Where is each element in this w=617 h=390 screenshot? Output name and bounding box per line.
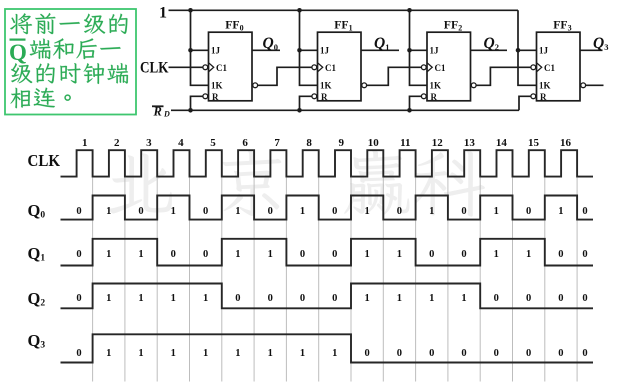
svg-text:0: 0 xyxy=(526,206,531,217)
junction dot RD rail FF2 xyxy=(407,108,412,113)
svg-text:6: 6 xyxy=(242,137,248,149)
svg-text:1J: 1J xyxy=(539,46,549,56)
wire 1J input FF3 xyxy=(518,49,537,51)
svg-text:0: 0 xyxy=(461,249,466,260)
clock edge wedge FF1 xyxy=(318,63,323,72)
svg-text:1: 1 xyxy=(235,249,240,260)
svg-text:1: 1 xyxy=(332,348,337,359)
svg-text:C1: C1 xyxy=(435,63,446,73)
svg-text:0: 0 xyxy=(582,348,587,359)
svg-text:0: 0 xyxy=(171,249,176,260)
wire Qbar2 output xyxy=(476,67,531,85)
reset inversion bubble FF3 xyxy=(531,94,536,99)
svg-text:2: 2 xyxy=(114,137,120,149)
Q0 waveform xyxy=(61,196,594,220)
Q3 waveform xyxy=(61,334,594,362)
wire Qbar1 output xyxy=(367,67,422,85)
wire Qbar3 output xyxy=(586,84,604,86)
svg-text:1: 1 xyxy=(171,293,176,304)
svg-text:0: 0 xyxy=(429,348,434,359)
svg-text:13: 13 xyxy=(464,137,476,149)
wire R input FF1 xyxy=(300,96,312,110)
svg-text:1: 1 xyxy=(106,348,111,359)
junction dot RD rail FF0 xyxy=(188,108,193,113)
svg-text:1K: 1K xyxy=(430,81,442,91)
junction dot RD rail FF1 xyxy=(297,108,302,113)
watermark character 北 xyxy=(109,153,172,213)
wire 1-rail drop to FF1 1K xyxy=(300,10,318,85)
wire 1-rail drop to FF2 1K xyxy=(410,10,428,85)
clock inversion bubble FF3 xyxy=(531,65,536,70)
svg-text:1: 1 xyxy=(268,249,273,260)
svg-text:7: 7 xyxy=(274,137,280,149)
clock inversion bubble FF0 xyxy=(203,65,208,70)
svg-text:0: 0 xyxy=(494,293,499,304)
wire R input FF3 xyxy=(519,96,531,110)
svg-text:0: 0 xyxy=(582,206,587,217)
svg-text:1: 1 xyxy=(138,293,143,304)
svg-text:1: 1 xyxy=(235,206,240,217)
svg-text:0: 0 xyxy=(526,293,531,304)
annotation text line 1 将前一级的 xyxy=(10,13,127,34)
annotation text line 4 相连。 xyxy=(11,88,71,109)
svg-text:0: 0 xyxy=(235,293,240,304)
svg-text:10: 10 xyxy=(368,137,380,149)
wire Qbar0 output xyxy=(258,67,312,85)
wire 1J input FF1 xyxy=(300,49,318,51)
svg-text:CLK: CLK xyxy=(140,60,169,77)
svg-text:1: 1 xyxy=(364,293,369,304)
svg-text:1: 1 xyxy=(235,348,240,359)
svg-text:1J: 1J xyxy=(430,46,440,56)
svg-text:3: 3 xyxy=(146,137,152,149)
svg-text:C1: C1 xyxy=(325,63,336,73)
svg-text:0: 0 xyxy=(76,293,81,304)
Qbar inversion bubble FF3 xyxy=(581,83,586,88)
svg-text:9: 9 xyxy=(338,137,344,149)
svg-text:1K: 1K xyxy=(211,81,223,91)
svg-text:0: 0 xyxy=(364,348,369,359)
svg-text:0: 0 xyxy=(429,249,434,260)
svg-text:R: R xyxy=(321,92,328,102)
clock edge wedge FF0 xyxy=(209,63,214,72)
watermark character 科 xyxy=(415,151,485,217)
junction dot 1J branch FF3 xyxy=(516,48,521,53)
Q0 logic value digits xyxy=(76,206,587,217)
svg-text:4: 4 xyxy=(178,137,184,149)
svg-text:0: 0 xyxy=(268,206,273,217)
wire R input FF2 xyxy=(410,96,422,110)
svg-text:0: 0 xyxy=(558,249,563,260)
svg-text:C1: C1 xyxy=(544,63,555,73)
svg-text:1: 1 xyxy=(106,206,111,217)
svg-text:14: 14 xyxy=(496,137,508,149)
svg-text:0: 0 xyxy=(397,206,402,217)
svg-text:1: 1 xyxy=(429,206,434,217)
svg-text:0: 0 xyxy=(558,348,563,359)
svg-text:0: 0 xyxy=(76,348,81,359)
Q1 logic value digits xyxy=(76,249,587,260)
svg-text:0: 0 xyxy=(138,206,143,217)
svg-text:1J: 1J xyxy=(211,46,221,56)
annotation text line 2 Qbar 端和后一 xyxy=(9,38,121,65)
watermark character 京 xyxy=(223,150,282,216)
svg-text:1: 1 xyxy=(300,348,305,359)
svg-text:0: 0 xyxy=(582,293,587,304)
svg-text:1: 1 xyxy=(494,206,499,217)
reset inversion bubble FF0 xyxy=(203,94,208,99)
svg-text:1: 1 xyxy=(138,249,143,260)
svg-text:Q: Q xyxy=(9,40,27,65)
svg-text:15: 15 xyxy=(528,137,540,149)
svg-text:8: 8 xyxy=(306,137,312,149)
svg-text:0: 0 xyxy=(526,348,531,359)
svg-text:1: 1 xyxy=(268,348,273,359)
clock inversion bubble FF1 xyxy=(312,65,317,70)
wire Q0 output stub xyxy=(252,49,280,51)
wire R input FF0 xyxy=(191,96,203,110)
svg-text:5: 5 xyxy=(210,137,216,149)
Q1 waveform xyxy=(61,239,594,266)
svg-text:0: 0 xyxy=(494,348,499,359)
junction dot 1J branch FF0 xyxy=(188,48,193,53)
wire CLK to FF0 C1 xyxy=(169,66,203,68)
Qbar inversion bubble FF1 xyxy=(362,83,367,88)
svg-text:1K: 1K xyxy=(320,81,332,91)
flip-flop U1 FF1 body xyxy=(318,32,362,101)
Q2 logic value digits xyxy=(76,293,587,304)
svg-text:0: 0 xyxy=(203,249,208,260)
svg-text:1: 1 xyxy=(364,249,369,260)
clock edge wedge FF3 xyxy=(537,63,542,72)
junction dot 1J branch FF2 xyxy=(407,48,412,53)
svg-text:0: 0 xyxy=(397,348,402,359)
svg-text:1: 1 xyxy=(138,348,143,359)
svg-text:1: 1 xyxy=(397,249,402,260)
svg-text:0: 0 xyxy=(461,206,466,217)
wire 1J input FF0 xyxy=(191,49,209,51)
flip-flop U2 FF2 body xyxy=(427,32,471,101)
svg-text:R: R xyxy=(540,92,547,102)
svg-text:1: 1 xyxy=(203,293,208,304)
svg-text:0: 0 xyxy=(332,206,337,217)
svg-text:R: R xyxy=(212,92,219,102)
svg-text:1: 1 xyxy=(364,206,369,217)
svg-text:1: 1 xyxy=(494,249,499,260)
junction dot top rail FF1 xyxy=(297,8,302,13)
svg-text:CLK: CLK xyxy=(28,151,61,170)
junction dot 1J branch FF1 xyxy=(297,48,302,53)
CLK waveform xyxy=(61,150,594,176)
flip-flop U0 FF0 body xyxy=(209,32,253,101)
svg-text:C1: C1 xyxy=(216,63,227,73)
clock edge wedge FF2 xyxy=(427,63,432,72)
wire bottom RD rail xyxy=(171,109,519,111)
svg-text:0: 0 xyxy=(300,249,305,260)
svg-text:1: 1 xyxy=(171,206,176,217)
svg-text:1: 1 xyxy=(203,348,208,359)
wire Q3 output stub xyxy=(580,49,603,51)
clock inversion bubble FF2 xyxy=(421,65,426,70)
svg-text:0: 0 xyxy=(332,249,337,260)
svg-text:1: 1 xyxy=(558,206,563,217)
reset inversion bubble FF2 xyxy=(421,94,426,99)
wire Q2 output stub xyxy=(471,49,508,51)
timing grid lines at clock falling edges xyxy=(93,178,577,382)
svg-text:0: 0 xyxy=(332,293,337,304)
svg-text:0: 0 xyxy=(582,249,587,260)
svg-text:1: 1 xyxy=(461,293,466,304)
wire top rail from 1 to FF3 xyxy=(169,9,519,11)
Q2 waveform xyxy=(61,284,594,309)
junction dot top rail FF2 xyxy=(407,8,412,13)
svg-text:0: 0 xyxy=(76,206,81,217)
svg-text:0: 0 xyxy=(268,293,273,304)
label RD-bar xyxy=(152,105,170,119)
svg-text:0: 0 xyxy=(461,348,466,359)
svg-text:1: 1 xyxy=(300,206,305,217)
wire Q1 output stub xyxy=(361,49,399,51)
svg-text:0: 0 xyxy=(300,293,305,304)
reset inversion bubble FF1 xyxy=(312,94,317,99)
svg-text:1: 1 xyxy=(526,249,531,260)
svg-text:12: 12 xyxy=(432,137,444,149)
wire 1-rail drop to FF0 1K xyxy=(191,10,209,85)
svg-text:1: 1 xyxy=(171,348,176,359)
svg-text:1: 1 xyxy=(429,293,434,304)
svg-text:11: 11 xyxy=(400,137,410,149)
svg-text:0: 0 xyxy=(558,293,563,304)
Q3 logic value digits xyxy=(76,348,587,359)
svg-text:0: 0 xyxy=(76,249,81,260)
wire 1J input FF2 xyxy=(410,49,428,51)
svg-text:D: D xyxy=(163,110,170,119)
svg-text:1: 1 xyxy=(106,293,111,304)
flip-flop U3 FF3 body xyxy=(537,32,581,101)
svg-text:1: 1 xyxy=(82,137,88,149)
svg-text:1: 1 xyxy=(106,249,111,260)
Qbar inversion bubble FF2 xyxy=(471,83,476,88)
Qbar inversion bubble FF0 xyxy=(253,83,258,88)
svg-text:0: 0 xyxy=(203,206,208,217)
annotation box border xyxy=(5,9,136,115)
svg-text:1J: 1J xyxy=(320,46,330,56)
watermark character 赢 xyxy=(344,150,409,215)
svg-text:1: 1 xyxy=(397,293,402,304)
annotation text line 3 级的时钟端 xyxy=(11,63,128,84)
svg-text:1: 1 xyxy=(159,5,167,22)
wire 1-rail drop to FF3 1K xyxy=(518,10,537,85)
junction dot top rail FF0 xyxy=(188,8,193,13)
svg-text:16: 16 xyxy=(560,137,572,149)
clock cycle numbers 1-16 xyxy=(82,137,571,149)
svg-text:1K: 1K xyxy=(539,81,551,91)
svg-text:R: R xyxy=(431,92,438,102)
